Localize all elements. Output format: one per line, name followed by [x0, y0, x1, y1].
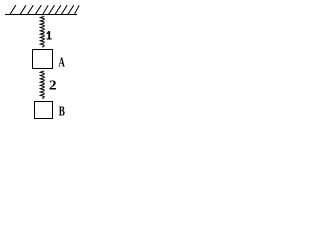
- svg-text:B: B: [59, 103, 65, 120]
- svg-text:2: 2: [49, 78, 57, 93]
- svg-text:A: A: [58, 56, 65, 70]
